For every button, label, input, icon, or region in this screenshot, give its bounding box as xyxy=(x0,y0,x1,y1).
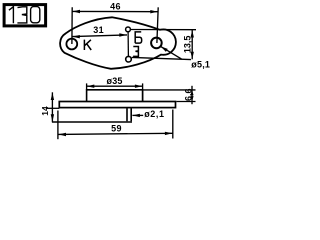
extension line plate top right (6,6) xyxy=(176,101,195,103)
dimension line 6,6 xyxy=(191,86,193,104)
dimension line 13,5 xyxy=(191,30,193,59)
label B (base) xyxy=(135,32,142,43)
right mounting hole xyxy=(151,38,162,49)
flange plate (side view) xyxy=(59,102,175,108)
extension line cap right (35) xyxy=(142,83,144,101)
svg-text:14: 14 xyxy=(40,106,50,116)
extension line top pin (13,5) xyxy=(131,29,196,31)
extension line plate right (59) xyxy=(172,110,174,139)
svg-text:13,5: 13,5 xyxy=(182,36,192,54)
dimension line 14 xyxy=(51,92,53,121)
extension line left hole (46) xyxy=(71,7,73,44)
pin Z circle xyxy=(126,56,132,62)
svg-text:46: 46 xyxy=(110,1,121,11)
plate bottom overshoot line xyxy=(46,107,59,109)
flange outline (top view) xyxy=(60,17,176,69)
svg-text:ø5,1: ø5,1 xyxy=(191,59,210,69)
pin B (base) circle xyxy=(126,27,131,32)
left mounting hole xyxy=(66,39,77,50)
extension line bottom pin / leader shelf xyxy=(132,57,191,59)
svg-text:ø2,1: ø2,1 xyxy=(144,109,164,119)
extension line cap top right (6,6) xyxy=(143,89,195,91)
dimension line 46 xyxy=(72,10,158,12)
label K (collector) xyxy=(84,40,91,50)
dimension line 35 xyxy=(87,85,143,87)
extension line right hole (46) xyxy=(157,7,158,43)
svg-text:ø35: ø35 xyxy=(107,76,123,86)
dimension line 59 xyxy=(58,133,172,134)
cap (side view) xyxy=(87,90,143,102)
figure number box 130 xyxy=(4,5,46,26)
pin (side view) xyxy=(127,108,131,121)
extension line cap left (35) xyxy=(86,83,88,89)
extension line plate left (59) xyxy=(57,111,59,140)
leader line hole dia xyxy=(161,46,182,59)
wire between pins xyxy=(127,32,129,56)
dimension line 31 xyxy=(72,35,127,37)
label Z xyxy=(133,47,138,57)
leader line pin dia xyxy=(132,114,143,116)
pin bottom / 14 extension line xyxy=(52,121,132,123)
svg-text:6,6: 6,6 xyxy=(184,89,194,102)
svg-text:59: 59 xyxy=(111,123,122,133)
svg-text:31: 31 xyxy=(93,25,104,35)
